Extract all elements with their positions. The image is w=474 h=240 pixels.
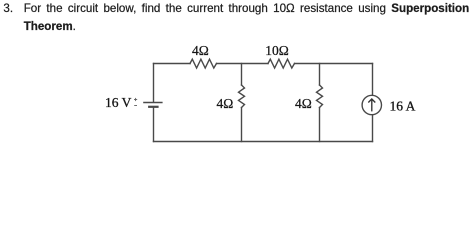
svg-text:16 V: 16 V [105, 95, 132, 110]
svg-text:4Ω: 4Ω [295, 96, 312, 111]
svg-text:4Ω: 4Ω [217, 96, 234, 111]
svg-text:16 A: 16 A [390, 99, 416, 114]
svg-text:10Ω: 10Ω [265, 43, 289, 58]
svg-text:4Ω: 4Ω [192, 43, 209, 58]
